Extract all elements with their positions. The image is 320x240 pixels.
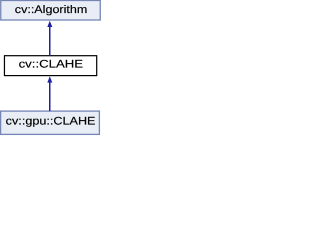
- svg-text:cv::gpu::CLAHE: cv::gpu::CLAHE: [6, 116, 96, 128]
- svg-text:cv::CLAHE: cv::CLAHE: [19, 59, 84, 71]
- svg-text:cv::Algorithm: cv::Algorithm: [15, 4, 88, 16]
